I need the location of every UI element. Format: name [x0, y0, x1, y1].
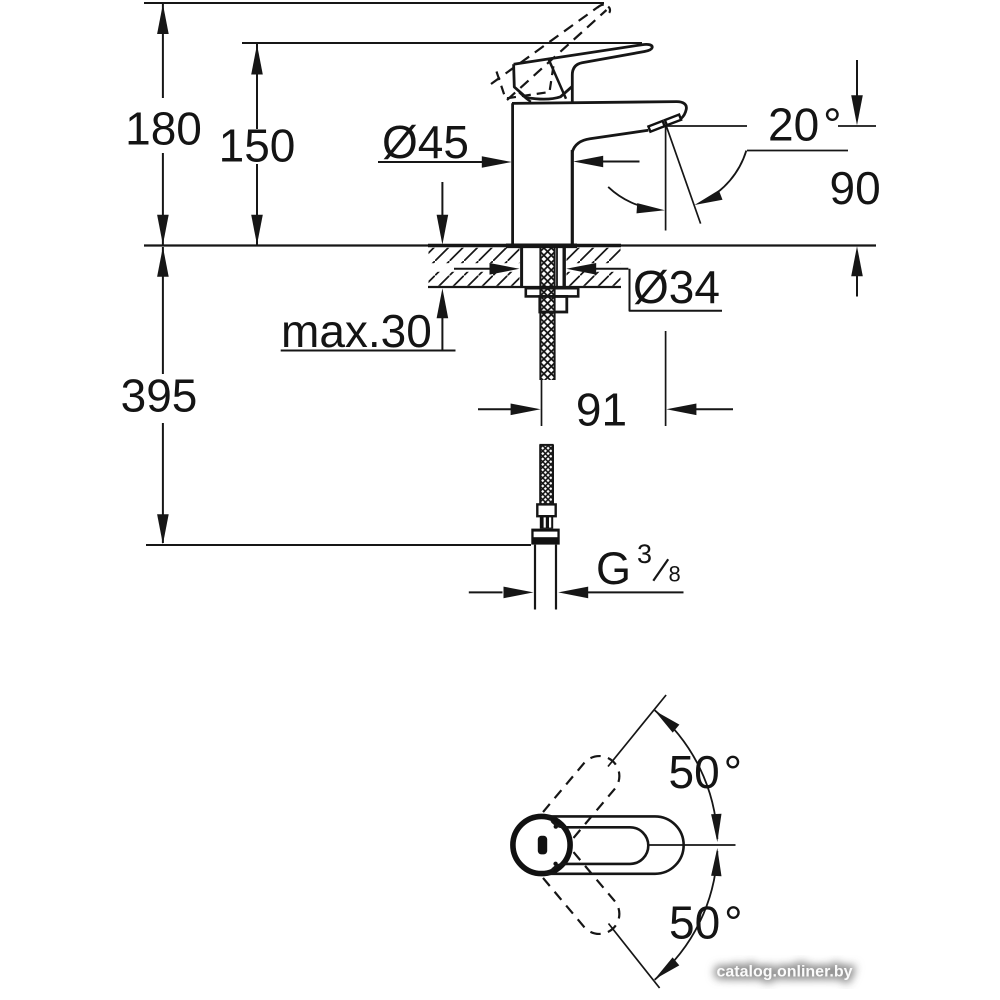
svg-text:20°: 20° — [768, 99, 842, 151]
svg-text:91: 91 — [576, 384, 627, 436]
svg-text:50°: 50° — [669, 746, 743, 798]
svg-text:180: 180 — [125, 103, 202, 155]
svg-text:50°: 50° — [669, 897, 743, 949]
svg-text:8: 8 — [669, 562, 681, 587]
svg-text:395: 395 — [121, 370, 198, 422]
svg-text:3: 3 — [637, 539, 652, 569]
svg-text:G: G — [596, 543, 631, 594]
svg-text:Ø34: Ø34 — [633, 261, 720, 313]
svg-text:catalog.onliner.by: catalog.onliner.by — [717, 964, 853, 981]
svg-text:Ø45: Ø45 — [382, 116, 469, 168]
svg-text:90: 90 — [830, 162, 881, 214]
svg-text:max.30: max.30 — [281, 305, 432, 357]
svg-text:150: 150 — [219, 120, 296, 172]
